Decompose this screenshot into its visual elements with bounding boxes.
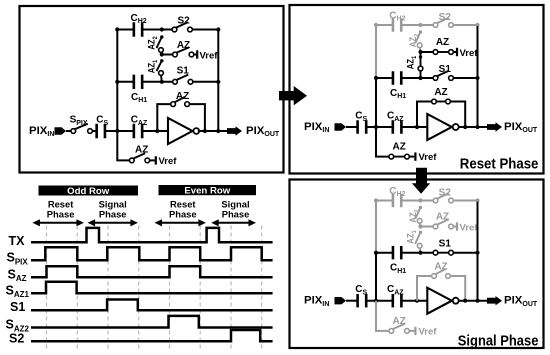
wire: AZ-to-Vref branch upper (Signal Phase panel) <box>421 226 434 228</box>
junction: main node (Reset Phase panel) <box>374 125 378 129</box>
wire: left rail lower (Signal Phase panel) <box>375 253 377 301</box>
svg-text:AZ: AZ <box>393 316 406 327</box>
terminal: PIXIN tag (Reset Phase panel) <box>335 123 347 130</box>
junction: main node (CS/CAZ/rail/AZ-bottom) <box>115 129 119 133</box>
arrow: odd reset phase span <box>32 219 84 226</box>
junction: CH1-S1 node (Reset Phase panel) <box>418 76 422 80</box>
junction: CH2-S2 node (Signal Phase panel) <box>418 198 422 202</box>
waveform SAZ1 <box>31 282 273 294</box>
junction: S2/right-rail corner (Signal Phase panel) <box>475 198 479 202</box>
wire: AZ-to-Vref branch (upper) <box>162 54 173 56</box>
gridline: dashed divider 6 <box>199 226 201 350</box>
wire: CS to CAZ (Signal Phase panel) <box>366 300 393 302</box>
switch AZ upper (Signal Phase panel) <box>433 219 453 229</box>
svg-text:Vref: Vref <box>460 222 479 233</box>
terminal: Vref bar bottom (Signal Phase panel) <box>414 327 416 335</box>
wire: left rail <box>116 30 118 132</box>
capacitor CH2 (Reset Phase panel) <box>393 18 401 31</box>
junction: CH1-S1 node (Signal Phase panel) <box>418 251 422 255</box>
junction: S1 / right rail <box>216 80 220 84</box>
arrow: even reset phase span <box>155 219 206 226</box>
wire: feedback loop <box>157 104 205 131</box>
wire: to Vref upper (Signal Phase panel) <box>453 226 456 228</box>
wire: to Vref bottom (Reset Phase panel) <box>409 156 414 158</box>
label AZ1 <box>146 59 159 73</box>
label AZ2 (Reset Phase panel) <box>407 33 420 47</box>
arrow: even signal phase span <box>211 219 256 226</box>
svg-text:Vref: Vref <box>200 50 219 61</box>
capacitor CAZ (Signal Phase panel) <box>393 294 402 307</box>
wire: to Vref terminal (bottom) <box>150 159 155 161</box>
junction: CH1-S1 node <box>160 80 164 84</box>
switch S1 (Signal Phase panel) <box>433 250 453 255</box>
junction: right rail / output node <box>216 129 220 133</box>
waveform S2 <box>31 330 273 341</box>
wire: CH2 branch (Signal Phase panel) <box>376 200 478 202</box>
switch S2 (Signal Phase panel) <box>433 193 453 203</box>
svg-text:Vref: Vref <box>159 156 178 167</box>
svg-text:S2: S2 <box>439 187 452 198</box>
switch AZ1 vertical (Reset Phase panel) <box>418 52 423 78</box>
junction: feedback/output node <box>203 129 207 133</box>
switch SPIX <box>71 124 92 134</box>
terminal: Vref bar (upper) <box>196 50 198 58</box>
svg-text:AZ: AZ <box>434 87 447 98</box>
junction: feedback/output node (Reset Phase panel) <box>463 125 467 129</box>
switch AZ bottom (Signal Phase panel) <box>389 324 409 334</box>
wire: feedback loop (Reset Phase panel) <box>417 102 465 128</box>
wire: left rail upper (Signal Phase panel) <box>375 201 377 253</box>
capacitor CS (Signal Phase panel) <box>358 294 367 307</box>
wire: bottom AZ branch (Reset Phase panel) <box>376 127 389 157</box>
svg-text:Odd Row: Odd Row <box>67 186 110 197</box>
junction: right rail/output (Reset Phase panel) <box>475 125 479 129</box>
switch AZ (upper, to Vref) <box>173 47 194 57</box>
junction: left rail / CH1 <box>115 80 119 84</box>
switch AZ1 (vertical) <box>157 59 164 82</box>
wire: output (Signal Phase panel) <box>459 300 488 302</box>
svg-text:AZ: AZ <box>393 142 406 153</box>
svg-text:Vref: Vref <box>460 48 479 59</box>
svg-text:Vref: Vref <box>419 327 438 338</box>
switch S2 <box>172 22 192 32</box>
svg-text:Reset Phase: Reset Phase <box>460 155 539 172</box>
junction: feedback/output node (Signal Phase panel) <box>463 299 467 303</box>
terminal: Vref bar upper (Reset Phase panel) <box>456 48 458 56</box>
junction: rail/CH2 corner (Reset Phase panel) <box>374 23 378 27</box>
junction: mid node (Reset Phase panel) <box>418 50 422 54</box>
wire: feedback loop (Signal Phase panel) <box>417 276 465 301</box>
switch AZ feedback (Reset Phase panel) <box>432 99 451 104</box>
terminal: PIXOUT tag (Signal Phase panel) <box>487 296 502 305</box>
panel: Reset Phase panel frame <box>290 5 544 174</box>
switch AZ2 vertical (Reset Phase panel) <box>415 30 422 52</box>
wire: to Vref upper (Reset Phase panel) <box>453 51 456 53</box>
switch AZ upper (Reset Phase panel) <box>433 50 453 55</box>
wire: right rail (Reset Phase panel) <box>477 26 479 127</box>
wire: input to SPIX <box>66 130 71 132</box>
svg-text:Phase: Phase <box>47 208 75 219</box>
switch AZ (bottom, to Vref) <box>129 153 149 163</box>
wire: CS to CAZ (main junction) <box>105 130 134 132</box>
wire: input to CS (Reset Phase panel) <box>346 126 358 128</box>
svg-text:TX: TX <box>9 234 26 248</box>
op-amp inverter (Reset Phase panel) <box>427 114 458 140</box>
svg-text:AZ: AZ <box>135 145 148 156</box>
junction: left rail / CH2 corner <box>115 27 119 31</box>
gridline: dashed divider 5 <box>169 226 171 350</box>
terminal: PIXOUT output tag <box>227 126 242 135</box>
label AZ1 (Reset Phase panel) <box>405 55 418 69</box>
terminal: PIXIN tag (Signal Phase panel) <box>335 297 347 304</box>
terminal: Vref bar bottom (Reset Phase panel) <box>414 152 416 160</box>
gridline: dashed divider 1 <box>46 226 48 350</box>
svg-text:Phase: Phase <box>169 208 197 219</box>
wire: CAZ to inverter input <box>142 130 168 132</box>
junction: inverter input node <box>155 129 159 133</box>
wire: right rail <box>217 30 219 132</box>
junction: S1/right rail (Reset Phase panel) <box>475 76 479 80</box>
header box: Odd Row <box>39 186 139 196</box>
svg-text:S1: S1 <box>177 66 190 77</box>
gridline: dashed divider 7 <box>230 226 232 350</box>
terminal: Vref bar (bottom) <box>155 156 157 164</box>
capacitor CAZ (Reset Phase panel) <box>393 120 402 133</box>
junction: rail/CH2 corner (Signal Phase panel) <box>374 198 378 202</box>
gridline: dashed divider 4 <box>138 226 140 350</box>
switch AZ feedback (Signal Phase panel) <box>432 269 451 279</box>
waveform SPIX <box>31 247 273 260</box>
junction: S2/right-rail corner (Reset Phase panel) <box>475 23 479 27</box>
junction: mid node (Signal Phase panel) <box>418 224 422 228</box>
junction: S1/right rail (Signal Phase panel) <box>475 251 479 255</box>
svg-text:Signal Phase: Signal Phase <box>458 332 539 349</box>
op-amp inverter (Signal Phase panel) <box>427 288 458 314</box>
panel: Signal Phase panel frame <box>290 180 544 349</box>
switch S1 <box>173 75 193 85</box>
svg-text:S2: S2 <box>9 332 24 346</box>
svg-text:S1: S1 <box>10 300 25 314</box>
wire: CH2 branch <box>117 29 218 31</box>
gridline: dashed divider 2 <box>76 226 78 350</box>
waveform TX <box>31 228 273 242</box>
svg-text:AZ: AZ <box>177 40 190 51</box>
wire: CH2 branch (Reset Phase panel) <box>376 24 478 26</box>
capacitor CS <box>97 124 105 138</box>
capacitor CH1 (Reset Phase panel) <box>393 71 401 84</box>
junction: CH2-S2 node <box>160 27 164 31</box>
label AZ2 <box>146 36 159 50</box>
svg-text:Even Row: Even Row <box>184 186 230 197</box>
capacitor CAZ <box>134 124 142 138</box>
capacitor CS (Reset Phase panel) <box>358 120 367 133</box>
switch AZ2 vertical (Signal Phase panel) <box>415 206 422 227</box>
terminal: PIXIN input tag <box>55 127 67 134</box>
arrow: Reset Phase to Signal Phase panel <box>412 168 430 194</box>
wire: SPIX to CS <box>92 130 95 132</box>
arrow: left panel to Reset Phase panel <box>279 86 307 105</box>
junction: main node (Signal Phase panel) <box>374 299 378 303</box>
svg-text:S1: S1 <box>439 239 452 250</box>
terminal: PIXOUT tag (Reset Phase panel) <box>487 122 502 131</box>
svg-text:AZ: AZ <box>176 91 189 102</box>
switch AZ (feedback) <box>171 97 190 107</box>
switch AZ1 vertical (Signal Phase panel) <box>415 231 422 253</box>
wire: to Vref bottom (Signal Phase panel) <box>409 330 414 332</box>
waveform SAZ <box>31 266 273 277</box>
switch S1 (Reset Phase panel) <box>433 71 453 81</box>
wire: output (Reset Phase panel) <box>459 126 488 128</box>
junction: inverter input node (Signal Phase panel) <box>415 299 419 303</box>
panel: full CDS circuit frame (top-left) <box>20 6 284 173</box>
switch AZ2 (vertical) <box>157 35 164 54</box>
wire: to Vref terminal (upper) <box>194 54 197 56</box>
capacitor CH1 <box>134 75 142 89</box>
junction: CH2-S2 node (Reset Phase panel) <box>418 23 422 27</box>
wire: CH1 branch <box>117 81 218 83</box>
svg-text:AZ: AZ <box>434 262 447 273</box>
label AZ1 (Signal Phase panel) <box>405 230 418 244</box>
svg-text:Phase: Phase <box>222 208 250 219</box>
waveform S1 <box>31 300 273 311</box>
wire: left rail lower (Reset Phase panel) <box>375 78 377 127</box>
wire: CH1 branch (Signal Phase panel) <box>376 252 478 254</box>
capacitor CH2 <box>134 22 142 36</box>
terminal: Vref bar upper (Signal Phase panel) <box>456 222 458 230</box>
wire: bottom AZ branch (Signal Phase panel) <box>376 301 389 331</box>
op-amp U1 (inverter) <box>168 118 199 144</box>
junction: rail/CH1 (Reset Phase panel) <box>374 76 378 80</box>
wire: left rail upper (Reset Phase panel) <box>375 25 377 78</box>
switch S2 (Reset Phase panel) <box>433 18 453 28</box>
junction: inverter input node (Reset Phase panel) <box>415 125 419 129</box>
waveform SAZ2 <box>31 316 273 328</box>
junction: S2 / right rail corner <box>216 27 220 31</box>
arrow: odd signal phase span <box>88 219 138 226</box>
wire: CH1 branch (Reset Phase panel) <box>376 77 478 79</box>
label AZ2 (Signal Phase panel) <box>407 209 420 223</box>
svg-text:Phase: Phase <box>99 208 127 219</box>
svg-text:S2: S2 <box>439 12 452 23</box>
gridline: dashed divider 8 <box>261 226 263 350</box>
junction: AZ2/AZ1 mid node <box>160 52 164 56</box>
svg-text:S1: S1 <box>439 64 452 75</box>
wire: bottom AZ branch <box>117 131 129 160</box>
svg-text:AZ: AZ <box>436 212 449 223</box>
gridline: dashed divider 3 <box>107 226 109 350</box>
svg-text:S2: S2 <box>177 16 190 27</box>
wire: CAZ to inverter (Signal Phase panel) <box>401 300 427 302</box>
wire: CS to CAZ (Reset Phase panel) <box>366 126 393 128</box>
junction: right rail/output (Signal Phase panel) <box>475 299 479 303</box>
wire: AZ-to-Vref branch upper (Reset Phase panel) <box>421 51 434 53</box>
header box: Even Row <box>159 185 257 195</box>
wire: inverter output to PIXOUT <box>198 130 227 132</box>
wire: right rail (Signal Phase panel) <box>477 202 479 301</box>
svg-text:AZ: AZ <box>436 37 449 48</box>
svg-text:Vref: Vref <box>419 152 438 163</box>
wire: input to CS (Signal Phase panel) <box>346 300 358 302</box>
wire: CAZ to inverter (Reset Phase panel) <box>401 126 427 128</box>
capacitor CH1 (Signal Phase panel) <box>393 246 401 259</box>
capacitor CH2 (Signal Phase panel) <box>393 194 401 207</box>
switch AZ bottom (Reset Phase panel) <box>389 154 409 159</box>
junction: rail/CH1 (Signal Phase panel) <box>374 251 378 255</box>
